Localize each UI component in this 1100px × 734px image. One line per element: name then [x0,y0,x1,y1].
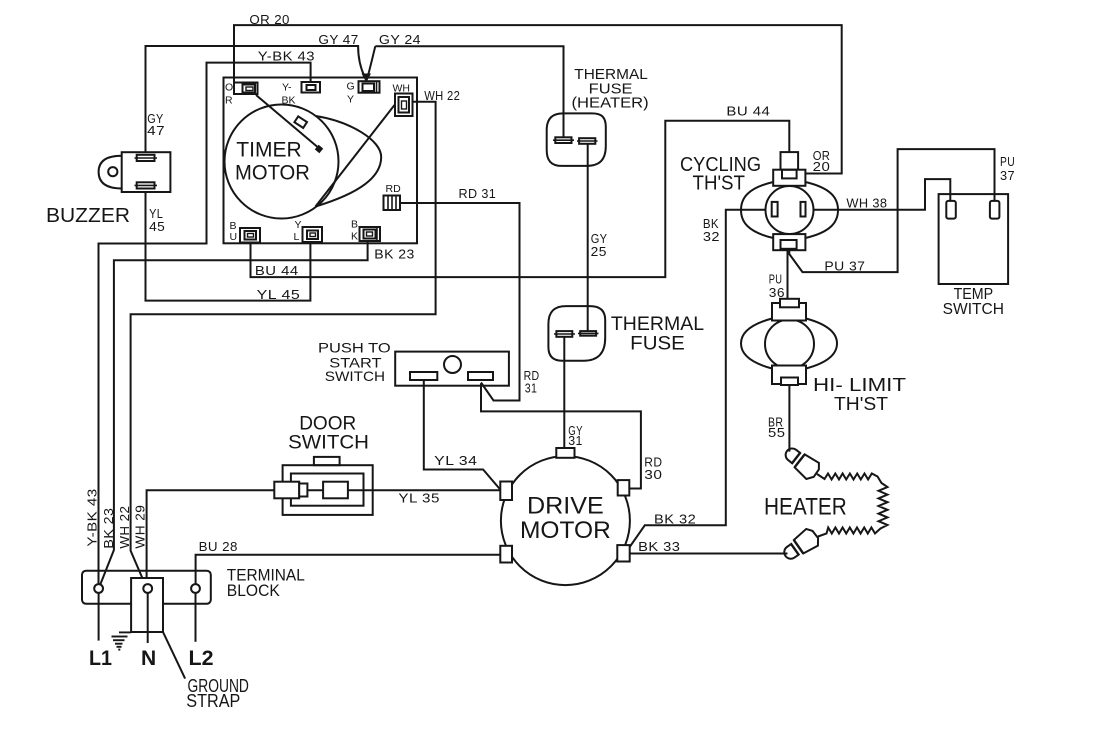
terminal block [82,571,211,632]
svg-text:B: B [351,219,358,231]
svg-text:20: 20 [813,159,831,174]
wire BK 23 (timer B-K terminal to terminal block L1) [100,241,368,586]
svg-text:PUSH TO: PUSH TO [318,340,391,356]
svg-text:TH'ST: TH'ST [693,173,746,195]
svg-text:WH 29: WH 29 [133,505,148,549]
heater top plug [781,443,823,482]
svg-text:TH'ST: TH'ST [834,394,888,414]
timer motor circle [225,105,339,219]
svg-text:FUSE: FUSE [630,333,685,354]
svg-text:WH: WH [393,83,411,95]
svg-text:36: 36 [769,285,785,300]
wire RD 31 (timer RD terminal to push-to-start switch) [400,203,520,401]
svg-text:PU 37: PU 37 [824,259,865,274]
svg-text:YL 45: YL 45 [257,287,301,302]
svg-text:31: 31 [525,381,538,396]
wire BU 44 (timer B-U terminal to cycling thermostat top) [251,121,790,277]
wire BR 55 (hi-limit bottom to heater plug) [788,385,790,452]
wire BK 33 (drive motor to heater bottom plug) [630,553,788,555]
svg-text:BK: BK [282,95,296,107]
svg-text:30: 30 [644,467,662,482]
svg-text:RD 31: RD 31 [459,186,497,201]
wire WH 38 (cycling thermostat to temp switch left) [806,179,950,210]
timer terminal WH [393,83,413,117]
wire WH 22 (timer WH terminal to terminal block N) [131,102,436,586]
svg-text:HI- LIMIT: HI- LIMIT [813,375,906,395]
svg-text:MOTOR: MOTOR [520,517,611,544]
svg-text:Y-BK 43: Y-BK 43 [85,488,100,546]
svg-text:BK 23: BK 23 [374,246,414,261]
svg-text:O: O [225,82,233,94]
svg-text:DOOR: DOOR [299,413,356,434]
svg-text:L2: L2 [189,647,214,670]
wire YL 45 (buzzer bottom to timer Y-L terminal) [146,191,311,301]
svg-text:Y-BK 43: Y-BK 43 [258,49,315,64]
svg-text:K: K [351,231,358,243]
svg-text:55: 55 [768,425,785,440]
svg-text:31: 31 [568,433,583,448]
L1 lead [98,593,100,641]
timer motor box [224,78,418,244]
wire GY 31 (thermal fuse to drive motor top) [563,337,565,449]
svg-text:WH 22: WH 22 [424,88,460,103]
svg-text:TIMER: TIMER [236,139,301,162]
svg-text:THERMAL: THERMAL [611,314,704,335]
svg-text:MOTOR: MOTOR [235,162,310,185]
push-to-start switch [395,352,509,386]
timer terminal RD [384,183,402,210]
svg-text:SWITCH: SWITCH [943,301,1004,318]
svg-text:BU 28: BU 28 [199,539,238,554]
svg-text:PU: PU [1000,154,1015,169]
svg-text:Y: Y [295,219,302,231]
wire BK 32 (cycling thermostat left to drive motor) [629,210,773,548]
svg-text:G: G [347,81,355,93]
timer terminal B-K [351,219,380,243]
wire GY 24 (timer G-Y terminal to thermal fuse heater) [368,46,564,137]
heater element zigzag [817,474,888,537]
timer cam follower pad [294,116,307,128]
temp switch [939,194,1009,284]
timer terminal Y-L [294,219,323,243]
svg-text:BK 32: BK 32 [654,511,696,526]
svg-text:(HEATER): (HEATER) [572,96,649,112]
ground symbol [112,632,132,649]
svg-text:SWITCH: SWITCH [325,368,385,384]
ground strap leader line [163,632,185,679]
heater bottom plug [780,526,822,564]
svg-text:YL 34: YL 34 [434,453,477,468]
thermal fuse (heater) body [547,113,606,165]
svg-text:YL 35: YL 35 [398,491,440,506]
svg-text:L1: L1 [89,647,112,670]
drive motor [500,448,630,585]
svg-text:BLOCK: BLOCK [227,581,281,600]
svg-text:Y: Y [347,94,354,106]
svg-text:GY 47: GY 47 [318,32,358,47]
svg-text:U: U [230,231,238,243]
N lead [147,593,149,643]
svg-text:GY 24: GY 24 [379,32,421,47]
svg-text:BUZZER: BUZZER [46,205,130,227]
svg-text:WH 38: WH 38 [846,196,887,211]
wire YL 35 (door switch to drive motor) [348,489,501,491]
svg-text:BU 44: BU 44 [726,103,770,118]
wire PU 36 (cycling thermostat bottom to hi-limit top) [787,251,789,301]
wire YL 34 (push-to-start switch to drive motor) [424,381,500,490]
timer terminal O-R [225,82,258,107]
timer terminal Y-BK [282,82,321,107]
svg-text:N: N [141,647,156,670]
svg-text:32: 32 [703,229,720,244]
wire GY 25 (thermal fuse heater to thermal fuse) [587,144,589,332]
svg-text:Y-: Y- [282,82,292,94]
L2 lead [195,593,197,642]
svg-text:L: L [294,231,300,243]
svg-text:DRIVE: DRIVE [527,493,604,520]
timer terminal B-U [230,220,261,243]
svg-text:37: 37 [1000,168,1015,183]
wire WH 29 (door switch to terminal block N) [147,490,275,584]
svg-text:47: 47 [147,123,165,138]
svg-text:R: R [225,95,233,107]
arrowhead into G-Y terminal [362,74,372,83]
buzzer [99,152,171,192]
timer contact line from WH terminal [316,105,395,207]
timer lever from O-R terminal [256,95,321,150]
svg-text:STRAP: STRAP [186,691,240,711]
svg-text:HEATER: HEATER [764,494,847,521]
svg-text:RD: RD [386,183,402,195]
svg-text:45: 45 [149,219,165,234]
wire OR 20 (timer O-R terminal to cycling thermostat, top run) [234,25,842,173]
wire PU 37 (cycling thermostat bottom to temp switch right) [789,149,994,272]
svg-text:BK 33: BK 33 [638,539,680,554]
svg-text:25: 25 [591,244,607,259]
timer terminal G-Y [347,81,380,106]
hi-limit thermostat [741,299,837,385]
wire Y-BK 43 (timer Y-BK terminal to terminal block L1) [99,63,311,585]
svg-text:SWITCH: SWITCH [288,433,369,454]
timer cam lobe [316,116,382,207]
svg-text:BU 44: BU 44 [255,263,299,278]
wire RD 30 (push-to-start switch to drive motor) [481,384,641,489]
door switch [274,457,372,515]
wire GY 47 (buzzer top to timer G-Y terminal) [146,46,365,156]
wire BU 28 (terminal block L2 to drive motor) [196,555,501,585]
svg-text:OR 20: OR 20 [249,12,289,27]
svg-text:BK 23: BK 23 [101,508,116,549]
thermal fuse body [548,306,605,361]
svg-text:WH 22: WH 22 [117,506,132,549]
cycling thermostat [741,152,838,250]
